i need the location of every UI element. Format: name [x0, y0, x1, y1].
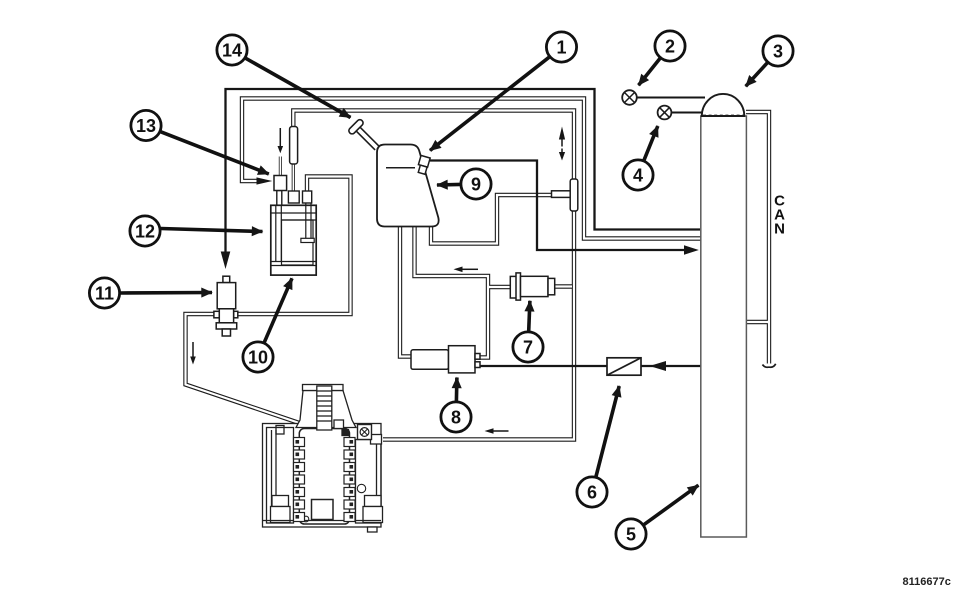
- tube valve 11 left port down diagonal to engine (T5): [186, 314, 316, 429]
- svg-text:8116677c: 8116677c: [903, 576, 951, 588]
- tube pump right fitting to valve 11 right port (T4): [236, 177, 351, 315]
- callout circle 8: [441, 402, 471, 432]
- tube tank right port to component 8 upper nipple (T7): [415, 226, 489, 358]
- callout circle 7: [513, 332, 543, 362]
- component 6: inline filter with diagonal: [607, 358, 641, 375]
- canister dome cap: [702, 94, 745, 116]
- callout arrows: [120, 57, 767, 524]
- stub line from vent check valve 4 to canister: [672, 112, 704, 114]
- callout numbers: [95, 36, 783, 544]
- svg-text:9: 9: [471, 174, 481, 194]
- CAN label: [774, 193, 785, 238]
- intake plenum: [299, 429, 349, 525]
- component 12: leak detection pump assembly: [271, 191, 316, 276]
- CALLOUTS: [89, 31, 793, 549]
- component 8: purge solenoid cylinder: [411, 346, 480, 373]
- bottom mounts: [272, 496, 289, 507]
- fuel filler neck tube: [359, 130, 378, 149]
- arrowhead down at valve 11 (end of thick line): [221, 252, 231, 270]
- component 13: ESIM switch box: [274, 176, 287, 191]
- svg-text:1: 1: [556, 37, 566, 57]
- component 9: tank fitting / control valve: [416, 155, 430, 174]
- callout 6 arrow: [596, 386, 619, 477]
- callout 11 arrow: [120, 291, 212, 295]
- vent check valve 4 (circle-X): [658, 106, 672, 120]
- bottom center square: [312, 500, 334, 520]
- flow arrow left on lower tube to engine: [493, 430, 509, 432]
- flow arrow down into ESIM: [279, 128, 281, 147]
- svg-text:8: 8: [451, 407, 461, 427]
- tube component 7 right to vertical tube: [553, 284, 572, 288]
- flow arrow up beside vertical tubes: [561, 139, 563, 147]
- component 14: fill cap / service port: [348, 118, 365, 135]
- component 11: proportional purge valve: [214, 276, 238, 336]
- callout circle 1: [546, 32, 576, 62]
- tube tank left port to component 8 left (T6): [400, 226, 412, 357]
- svg-text:13: 13: [136, 116, 156, 136]
- callout circle 5: [616, 519, 646, 549]
- engine block outline: [263, 424, 382, 528]
- svg-text:2: 2: [665, 36, 675, 56]
- callout 7 arrow: [529, 301, 530, 331]
- callout circle 14: [217, 35, 247, 65]
- callout circle 10: [243, 342, 273, 372]
- tube from ESIM arrow up-over to canister (vent tube T1): [242, 99, 701, 239]
- svg-text:10: 10: [248, 347, 268, 367]
- callout 4 arrow: [644, 126, 658, 160]
- tube from capsule top across and down to engine (T2): [293, 111, 574, 440]
- svg-text:3: 3: [773, 41, 783, 61]
- fuel level line: [386, 167, 415, 169]
- arrowhead right at canister (end of path A): [684, 245, 699, 255]
- flow arrow down beside vertical tubes: [561, 149, 563, 153]
- intake runner bumps left bank: [294, 438, 305, 522]
- svg-text:4: 4: [633, 165, 643, 185]
- callout circle 2: [655, 31, 685, 61]
- vent hose open end flare: [763, 364, 776, 367]
- svg-text:N: N: [774, 221, 785, 238]
- component 7: check valve cylinder: [510, 273, 554, 300]
- canister: [701, 116, 747, 537]
- callout 14 arrow: [246, 58, 351, 117]
- TUBES: white cores: [186, 99, 770, 440]
- callout 3 arrow: [746, 63, 768, 87]
- throttle port fitting with X: [371, 435, 382, 445]
- vent hose from dome to open end (T9): [746, 112, 769, 364]
- flow arrowhead left on canister-filter line: [650, 361, 667, 371]
- left channel: [267, 428, 294, 524]
- TUBES: black outer strokes: [186, 99, 770, 440]
- arrowhead at start of vent tube T1 pointing into ESIM: [257, 177, 273, 184]
- THICK SINGLE LINES: [226, 89, 706, 366]
- svg-text:6: 6: [587, 482, 597, 502]
- throttle stack: [296, 391, 356, 428]
- component 1: fuel tank: [377, 145, 439, 227]
- thick line component 8 through filter 6 to canister: [476, 365, 702, 367]
- callout 1 arrow: [430, 57, 549, 150]
- vent check valve 2 (circle-X): [622, 90, 637, 105]
- tube capsule bottom to pump middle fitting (T3): [292, 162, 295, 192]
- callout circle 3: [763, 36, 793, 66]
- tube tank bottom port to tee fitting (T8): [431, 195, 552, 244]
- tee fitting on vertical tube: [552, 191, 572, 198]
- canister side crossbar tube (T10): [746, 320, 769, 324]
- right channel: [356, 440, 382, 524]
- callout circle 4: [623, 160, 653, 190]
- intake runner bumps right bank: [344, 438, 355, 522]
- svg-text:14: 14: [222, 40, 242, 60]
- tube branch to component 7 left: [488, 285, 511, 289]
- callout 5 arrow: [644, 485, 698, 524]
- svg-text:11: 11: [95, 283, 114, 303]
- callout circle 6: [577, 477, 607, 507]
- thick line from valve 11 up over top to canister: [226, 89, 701, 253]
- callout circle 11: [89, 278, 119, 308]
- callout circle 13: [131, 110, 161, 140]
- flow arrow left above horizontal tube: [462, 268, 478, 270]
- callout 12 arrow: [161, 229, 263, 232]
- callout 10 arrow: [264, 278, 292, 342]
- callout 9 arrow: [437, 183, 460, 187]
- callout circle 12: [130, 216, 160, 246]
- stub line from vent check valve 2 to dome: [637, 97, 705, 99]
- callout circle 9: [461, 169, 491, 199]
- callout 13 arrow: [161, 132, 269, 174]
- thick line tank fitting to canister (path A): [430, 161, 684, 251]
- inline filter capsule on vertical tube: [570, 179, 578, 211]
- flow arrow down on left tube: [192, 342, 194, 357]
- ESIM stem tube: [279, 157, 282, 177]
- vent filter capsule above pump: [290, 127, 298, 165]
- bolt dots on banks: [296, 440, 354, 519]
- svg-text:5: 5: [626, 524, 636, 544]
- ENGINE assembly: [263, 385, 383, 533]
- svg-text:7: 7: [523, 337, 533, 357]
- svg-text:12: 12: [135, 221, 155, 241]
- callout 8 arrow: [455, 378, 459, 402]
- callout 2 arrow: [639, 58, 661, 85]
